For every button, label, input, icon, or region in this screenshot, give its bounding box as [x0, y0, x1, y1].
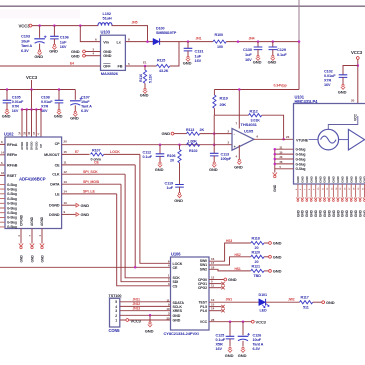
svg-text:16V: 16V [195, 58, 202, 63]
U101 bottom GND pin 21 wire and ground [362, 184, 365, 217]
wire VCC3 mid rail [0, 89, 75, 91]
junction at x299 supply crossing [298, 40, 301, 43]
U101 bottom GND pin 14 wire and ground [335, 184, 341, 217]
svg-text:VCC3: VCC3 [351, 50, 363, 55]
capacitor C107 [70, 90, 92, 114]
wire LED to R117 [266, 298, 300, 303]
junction G-Slug bus 163.9 [274, 163, 277, 166]
svg-text:C112: C112 [143, 151, 151, 155]
wire SW1 to R120 [209, 253, 251, 265]
wire CP net to loop filter [62, 144, 232, 146]
svg-text:GND: GND [309, 175, 313, 182]
svg-text:R102: R102 [189, 149, 197, 153]
junction switch node [146, 40, 149, 43]
ground below C130 [253, 55, 262, 64]
svg-text:C102: C102 [324, 70, 333, 74]
capacitor C103 [21, 26, 47, 53]
svg-text:E1: E1 [143, 61, 147, 65]
svg-text:GND: GND [2, 113, 11, 118]
wire VCC3 down to U101 VCC [351, 59, 358, 103]
wire R115 to output node [170, 42, 179, 66]
svg-text:G-Slug: G-Slug [7, 225, 17, 229]
wire SPI_SCK net [62, 170, 171, 278]
wire R100 to VCO supply branch [226, 41, 299, 43]
svg-text:C105: C105 [12, 96, 21, 100]
resistor R113 [174, 128, 232, 135]
ground below C125 [225, 347, 234, 358]
ground below C107 [70, 111, 79, 120]
junction on VCC3 rail at C103 [38, 24, 41, 27]
resistor R120 [251, 250, 264, 264]
ground terminal at R113 [162, 131, 174, 136]
capacitor C129 [269, 42, 288, 57]
U101 bottom GND pin 7 wire and ground [305, 184, 310, 217]
svg-text:GND: GND [345, 209, 349, 217]
svg-text:HS2: HS2 [235, 253, 241, 257]
svg-text:R119: R119 [220, 96, 228, 100]
svg-text:GND: GND [253, 59, 262, 64]
svg-text:U102: U102 [4, 132, 14, 137]
svg-text:R112: R112 [250, 110, 258, 114]
wire vertical from top net down at x=299 [298, 0, 300, 90]
svg-text:100: 100 [217, 45, 223, 49]
ground terminal CPG0 [209, 277, 237, 282]
svg-text:R106: R106 [167, 154, 175, 158]
svg-text:G-Slug: G-Slug [296, 162, 306, 166]
wire VCC3 to Vin pin of U103 [80, 26, 100, 42]
ground below C103 [34, 50, 43, 59]
inductor L102 [98, 11, 112, 26]
U101 buffer amp symbol [339, 129, 365, 150]
wire op-amp output to VTUNE [254, 135, 294, 140]
svg-text:R118: R118 [252, 237, 260, 241]
wire D100 cathode to output node [160, 41, 213, 43]
wire JN12 SCLK [120, 302, 171, 306]
svg-text:GND: GND [345, 175, 349, 182]
svg-text:E4: E4 [70, 62, 74, 66]
svg-text:TEST: TEST [198, 301, 208, 305]
svg-text:VCC3: VCC3 [26, 75, 38, 80]
svg-text:JN5: JN5 [132, 21, 138, 25]
svg-text:GND: GND [140, 92, 149, 97]
svg-text:DVDD: DVDD [30, 141, 34, 150]
svg-text:G-Slug: G-Slug [7, 220, 17, 224]
U101 bottom GND pin 10 wire and ground [318, 184, 323, 217]
svg-text:G-Slug: G-Slug [7, 197, 17, 201]
U101 G-Slug pin stubs to ground [275, 145, 294, 172]
faint ghost text band top-left [0, 10, 80, 19]
svg-text:GND: GND [273, 254, 282, 259]
svg-text:10uF: 10uF [81, 100, 90, 104]
svg-text:G-Slug: G-Slug [296, 153, 306, 157]
svg-text:AVDD: AVDD [20, 141, 24, 150]
U102 top pin names [20, 141, 43, 150]
U101 VTUNE pin name [296, 138, 318, 142]
ground pin 3 of U103 [71, 47, 101, 54]
svg-text:GND: GND [314, 175, 318, 182]
svg-text:RFinB: RFinB [7, 163, 18, 167]
wire SPI_LE net [62, 190, 171, 286]
svg-text:G-Slug: G-Slug [296, 167, 306, 171]
svg-text:13: 13 [64, 180, 68, 184]
IC U102 ADF4106 [4, 132, 62, 229]
svg-text:23: 23 [286, 135, 290, 139]
svg-text:GND: GND [301, 175, 305, 182]
svg-text:100pF: 100pF [221, 157, 232, 161]
svg-text:GND: GND [268, 59, 277, 64]
svg-text:AGND: AGND [40, 216, 44, 226]
resistor R106 [167, 145, 181, 185]
svg-text:DGND: DGND [49, 204, 60, 208]
resistor R118 [251, 237, 264, 251]
svg-text:GND: GND [225, 353, 234, 358]
node JN1 label [196, 36, 202, 40]
capacitor C125 [216, 322, 235, 351]
wire R119 bottom to R112 [214, 114, 248, 116]
wire feedback node vertical [213, 115, 215, 153]
svg-text:GND: GND [173, 319, 181, 323]
svg-text:FB: FB [118, 65, 123, 69]
ground below C131 [183, 56, 192, 65]
svg-text:GND: GND [326, 300, 335, 305]
ground terminal after R118 [264, 241, 282, 246]
svg-text:TST100: TST100 [109, 294, 122, 298]
svg-text:4: 4 [115, 305, 117, 309]
svg-text:R115: R115 [157, 58, 165, 62]
junction at C130 [257, 40, 260, 43]
LED D101 [259, 293, 270, 312]
svg-text:C125: C125 [216, 334, 225, 338]
wire CE net long left [0, 266, 135, 268]
svg-text:10uF: 10uF [253, 338, 262, 342]
wire supply drops to U102 top pins [18, 110, 41, 138]
svg-text:CE: CE [173, 266, 178, 270]
svg-text:CON5: CON5 [109, 328, 121, 333]
svg-text:GND: GND [155, 167, 164, 172]
svg-text:0.34Vpp: 0.34Vpp [274, 84, 288, 88]
no-connect CPG2 [209, 286, 225, 289]
U101 bottom GND pin 16 wire and ground [345, 184, 350, 217]
svg-text:GND: GND [305, 209, 309, 217]
svg-text:GND: GND [174, 198, 183, 203]
svg-text:5.11K: 5.11K [149, 74, 153, 83]
U101 bottom GND pin 4 wire and ground [295, 184, 301, 217]
wire FB node [125, 61, 156, 67]
resistor R100 [213, 33, 226, 49]
U101 bottom GND pin 11 wire and ground [322, 184, 327, 217]
U102 bottom ground stub AGND2 [38, 229, 45, 263]
capacitor C126 [238, 322, 264, 351]
wire top border net (left) [0, 5, 365, 7]
svg-text:GND: GND [319, 209, 323, 217]
svg-text:R120: R120 [252, 250, 260, 254]
U101 bottom GND pin 8 wire and ground [309, 184, 314, 217]
svg-text:LE: LE [55, 192, 60, 196]
svg-text:GND: GND [228, 277, 237, 282]
U101 bottom GND pin 6 wire and ground [300, 184, 305, 217]
svg-text:511: 511 [303, 305, 309, 309]
wire JN13 XRES [120, 307, 171, 311]
no-connect P1.5 [209, 305, 225, 308]
diode D100 [153, 27, 177, 45]
svg-text:16V: 16V [245, 57, 252, 62]
junction V+ at 0.34Vpp line [238, 88, 241, 91]
svg-text:1: 1 [115, 319, 117, 323]
svg-text:10: 10 [64, 201, 68, 205]
no-connect CPG1 [209, 282, 225, 285]
U106 right pin numbers [211, 257, 215, 322]
junction CE net [134, 266, 137, 269]
svg-text:43.2K: 43.2K [159, 69, 169, 73]
svg-text:6.3V: 6.3V [253, 347, 261, 351]
svg-text:GND: GND [19, 255, 23, 263]
svg-text:GND: GND [273, 241, 282, 246]
wire L102 to Lx node [112, 26, 148, 42]
U102 G-Slug left pin stubs [0, 184, 5, 227]
svg-text:GND: GND [301, 209, 305, 217]
junction FB node [144, 65, 147, 68]
capacitor C106 [50, 26, 70, 49]
svg-text:SPI_LE: SPI_LE [83, 190, 95, 194]
svg-text:VTUNE: VTUNE [296, 138, 309, 142]
svg-text:GND: GND [145, 329, 154, 334]
svg-text:20K: 20K [220, 103, 227, 107]
junction G-Slug bus 149.2 [274, 148, 277, 151]
svg-text:GND: GND [30, 255, 34, 263]
wire op-amp V+ supply [236, 90, 240, 129]
svg-text:R107: R107 [92, 149, 100, 153]
no-connect P1.6 [209, 309, 225, 312]
junction VCC at C125 [229, 320, 232, 323]
junction op-amp output node [282, 138, 285, 141]
svg-text:JN1: JN1 [196, 36, 202, 40]
ground below C129 [268, 55, 277, 64]
svg-text:6.3V: 6.3V [81, 109, 89, 113]
svg-text:GND: GND [71, 53, 80, 58]
svg-text:C126: C126 [253, 334, 262, 338]
svg-text:REFin: REFin [7, 153, 18, 157]
wire LOCK net horizontal [104, 150, 140, 154]
svg-text:2K: 2K [200, 128, 205, 132]
svg-text:CE: CE [55, 163, 61, 167]
svg-text:THS4031: THS4031 [241, 122, 258, 127]
junction at C102 branch [357, 64, 360, 67]
U102 G-Slug pin names [7, 183, 17, 229]
svg-text:GND: GND [341, 175, 345, 182]
resistor R119 [213, 90, 228, 116]
svg-text:GND: GND [359, 209, 363, 217]
capacitor C130 [243, 42, 262, 62]
svg-text:Tant A: Tant A [81, 105, 92, 109]
svg-text:Tant A: Tant A [253, 343, 264, 347]
junction on VCC3 rail at Vin branch [79, 24, 82, 27]
wire CE net horizontal [62, 161, 136, 165]
svg-text:AVDD: AVDD [25, 141, 29, 150]
svg-text:0.1uF: 0.1uF [216, 338, 226, 342]
svg-text:TBD: TBD [254, 274, 262, 278]
svg-text:G-Slug: G-Slug [7, 202, 17, 206]
svg-text:16V: 16V [12, 109, 19, 113]
wire SW2 to R121 [209, 267, 251, 271]
ground terminal after R117 [313, 300, 335, 305]
svg-text:GND: GND [173, 314, 181, 318]
junction JN4 node [237, 40, 240, 43]
svg-text:GND: GND [81, 212, 90, 217]
svg-text:CE: CE [94, 161, 99, 165]
svg-text:CP: CP [55, 142, 61, 146]
svg-text:GND: GND [34, 54, 43, 59]
power terminal VCC3 top-left [19, 23, 32, 28]
svg-text:GND: GND [305, 175, 309, 182]
U102 right pin names [44, 142, 60, 217]
svg-text:16V: 16V [216, 347, 223, 351]
svg-text:CLK: CLK [52, 173, 60, 177]
svg-text:12: 12 [64, 170, 68, 174]
svg-text:GND: GND [81, 203, 90, 208]
svg-text:20: 20 [64, 140, 68, 144]
junction bus VP [40, 108, 43, 111]
svg-text:JW1: JW1 [226, 298, 233, 302]
node 0.34Vpp label [274, 84, 288, 88]
wire CE net vertical [135, 165, 170, 267]
svg-text:0.1uF: 0.1uF [143, 155, 153, 159]
svg-text:RSET: RSET [7, 174, 17, 178]
svg-text:18: 18 [211, 265, 215, 269]
capacitor C102 [324, 66, 358, 88]
svg-text:C107: C107 [81, 96, 90, 100]
svg-text:JN11: JN11 [133, 298, 141, 302]
ground below C113 [209, 162, 218, 172]
svg-text:GND: GND [49, 48, 58, 53]
svg-text:GND: GND [70, 115, 79, 120]
svg-text:JN13: JN13 [133, 307, 141, 311]
svg-text:SPI_MOSI: SPI_MOSI [83, 180, 99, 184]
U101 oscillator symbol [318, 129, 339, 150]
U106 right pin names [198, 259, 208, 324]
wire SPI_MOSI net [62, 180, 171, 282]
resistor R102 [187, 139, 200, 153]
svg-text:1uF: 1uF [167, 186, 174, 190]
svg-text:GND: GND [332, 209, 336, 217]
svg-text:-: - [234, 132, 235, 136]
U102 left pin names [7, 143, 18, 178]
U101 bottom GND pin 9 wire and ground [314, 184, 319, 217]
U101 bottom GND pin 18 wire and ground [354, 184, 359, 217]
svg-text:GND: GND [310, 209, 314, 217]
U102 left pin stubs [0, 140, 5, 175]
svg-text:DATA: DATA [50, 183, 60, 187]
svg-text:CPGND: CPGND [19, 214, 23, 226]
svg-text:MAX8526: MAX8526 [101, 71, 119, 76]
svg-text:GND: GND [162, 131, 171, 136]
ground drop from CON5 net [145, 315, 154, 333]
U101 bottom GND pin 17 wire and ground [349, 184, 354, 217]
wire Lx pin to switch node [125, 37, 153, 41]
svg-text:G-Slug: G-Slug [296, 148, 306, 152]
svg-text:11: 11 [64, 161, 67, 165]
op-amp U105 THS4031 [228, 122, 258, 150]
svg-text:X5R: X5R [216, 343, 223, 347]
resistor R116 [139, 66, 153, 89]
svg-text:15: 15 [64, 150, 68, 154]
svg-text:2: 2 [115, 314, 117, 318]
svg-text:16V: 16V [324, 83, 331, 87]
svg-text:11: 11 [211, 284, 214, 288]
svg-text:GND: GND [358, 175, 362, 182]
svg-text:20: 20 [351, 99, 355, 103]
svg-text:R113: R113 [186, 128, 194, 132]
svg-text:GND: GND [327, 209, 331, 217]
junction rail at C108 [58, 88, 61, 91]
node JN4 label [249, 36, 255, 40]
ground below C112 [155, 162, 164, 172]
svg-text:GND: GND [338, 89, 347, 94]
junction rail at C105 [6, 88, 9, 91]
svg-text:51uH: 51uH [103, 15, 112, 20]
svg-text:5: 5 [115, 300, 117, 304]
svg-text:GND: GND [354, 209, 358, 217]
CON5 pin numbers [115, 300, 117, 322]
U102 bottom ground stub AGND1 [28, 229, 35, 263]
svg-text:VCC: VCC [353, 113, 357, 121]
junction CP row at C112 [159, 143, 162, 146]
op-amp regulator U103 [101, 30, 126, 76]
svg-text:GND: GND [336, 209, 340, 217]
svg-text:R117: R117 [301, 296, 309, 300]
U101 bottom GND pin names [296, 175, 365, 182]
ground below C119 [174, 193, 183, 203]
svg-text:CPG2: CPG2 [198, 286, 207, 290]
svg-text:XRES: XRES [173, 309, 183, 313]
svg-text:G-Slug: G-Slug [7, 206, 17, 210]
power terminal VCC3 top-right [351, 50, 363, 59]
svg-text:VCC3: VCC3 [256, 319, 267, 324]
U101 bottom GND pin 19 wire and ground [358, 184, 363, 217]
junction at C129 [272, 40, 275, 43]
svg-text:6.3V: 6.3V [21, 48, 29, 53]
svg-text:GND: GND [273, 184, 277, 192]
svg-text:JW2: JW2 [288, 298, 295, 302]
svg-text:Vin: Vin [103, 40, 109, 44]
junction CP row at R106 [178, 143, 181, 146]
svg-text:GND: GND [349, 175, 353, 182]
junction bus DVDD2 [35, 108, 38, 111]
ground DGND pin9 of U102 [62, 212, 90, 217]
wire OFF enable net E4 [0, 62, 101, 66]
svg-text:0.01uF: 0.01uF [12, 100, 24, 104]
ground DGND pin10 of U102 [62, 203, 90, 208]
svg-text:R116: R116 [139, 74, 143, 82]
svg-text:E7: E7 [75, 150, 79, 154]
ground below C108 [54, 109, 63, 118]
svg-text:GND: GND [40, 255, 44, 263]
IC U106 CY8C21334 [164, 252, 210, 336]
wire JN11 SDATA [120, 298, 171, 302]
svg-text:20: 20 [255, 260, 259, 264]
svg-text:AGND: AGND [30, 216, 34, 226]
resistor R121 [251, 264, 264, 278]
wire VCC of U106 [209, 321, 251, 323]
svg-text:GND: GND [238, 353, 247, 358]
svg-text:13: 13 [211, 298, 215, 302]
svg-text:GND: GND [350, 209, 354, 217]
junction bus DVDD1 [30, 108, 33, 111]
capacitor C119 [165, 181, 184, 193]
wire MUXOUT net [62, 150, 90, 154]
svg-text:JN4: JN4 [249, 36, 255, 40]
svg-text:CY8C21334-24PVXI: CY8C21334-24PVXI [164, 331, 199, 336]
svg-text:RFinA: RFinA [7, 143, 18, 147]
